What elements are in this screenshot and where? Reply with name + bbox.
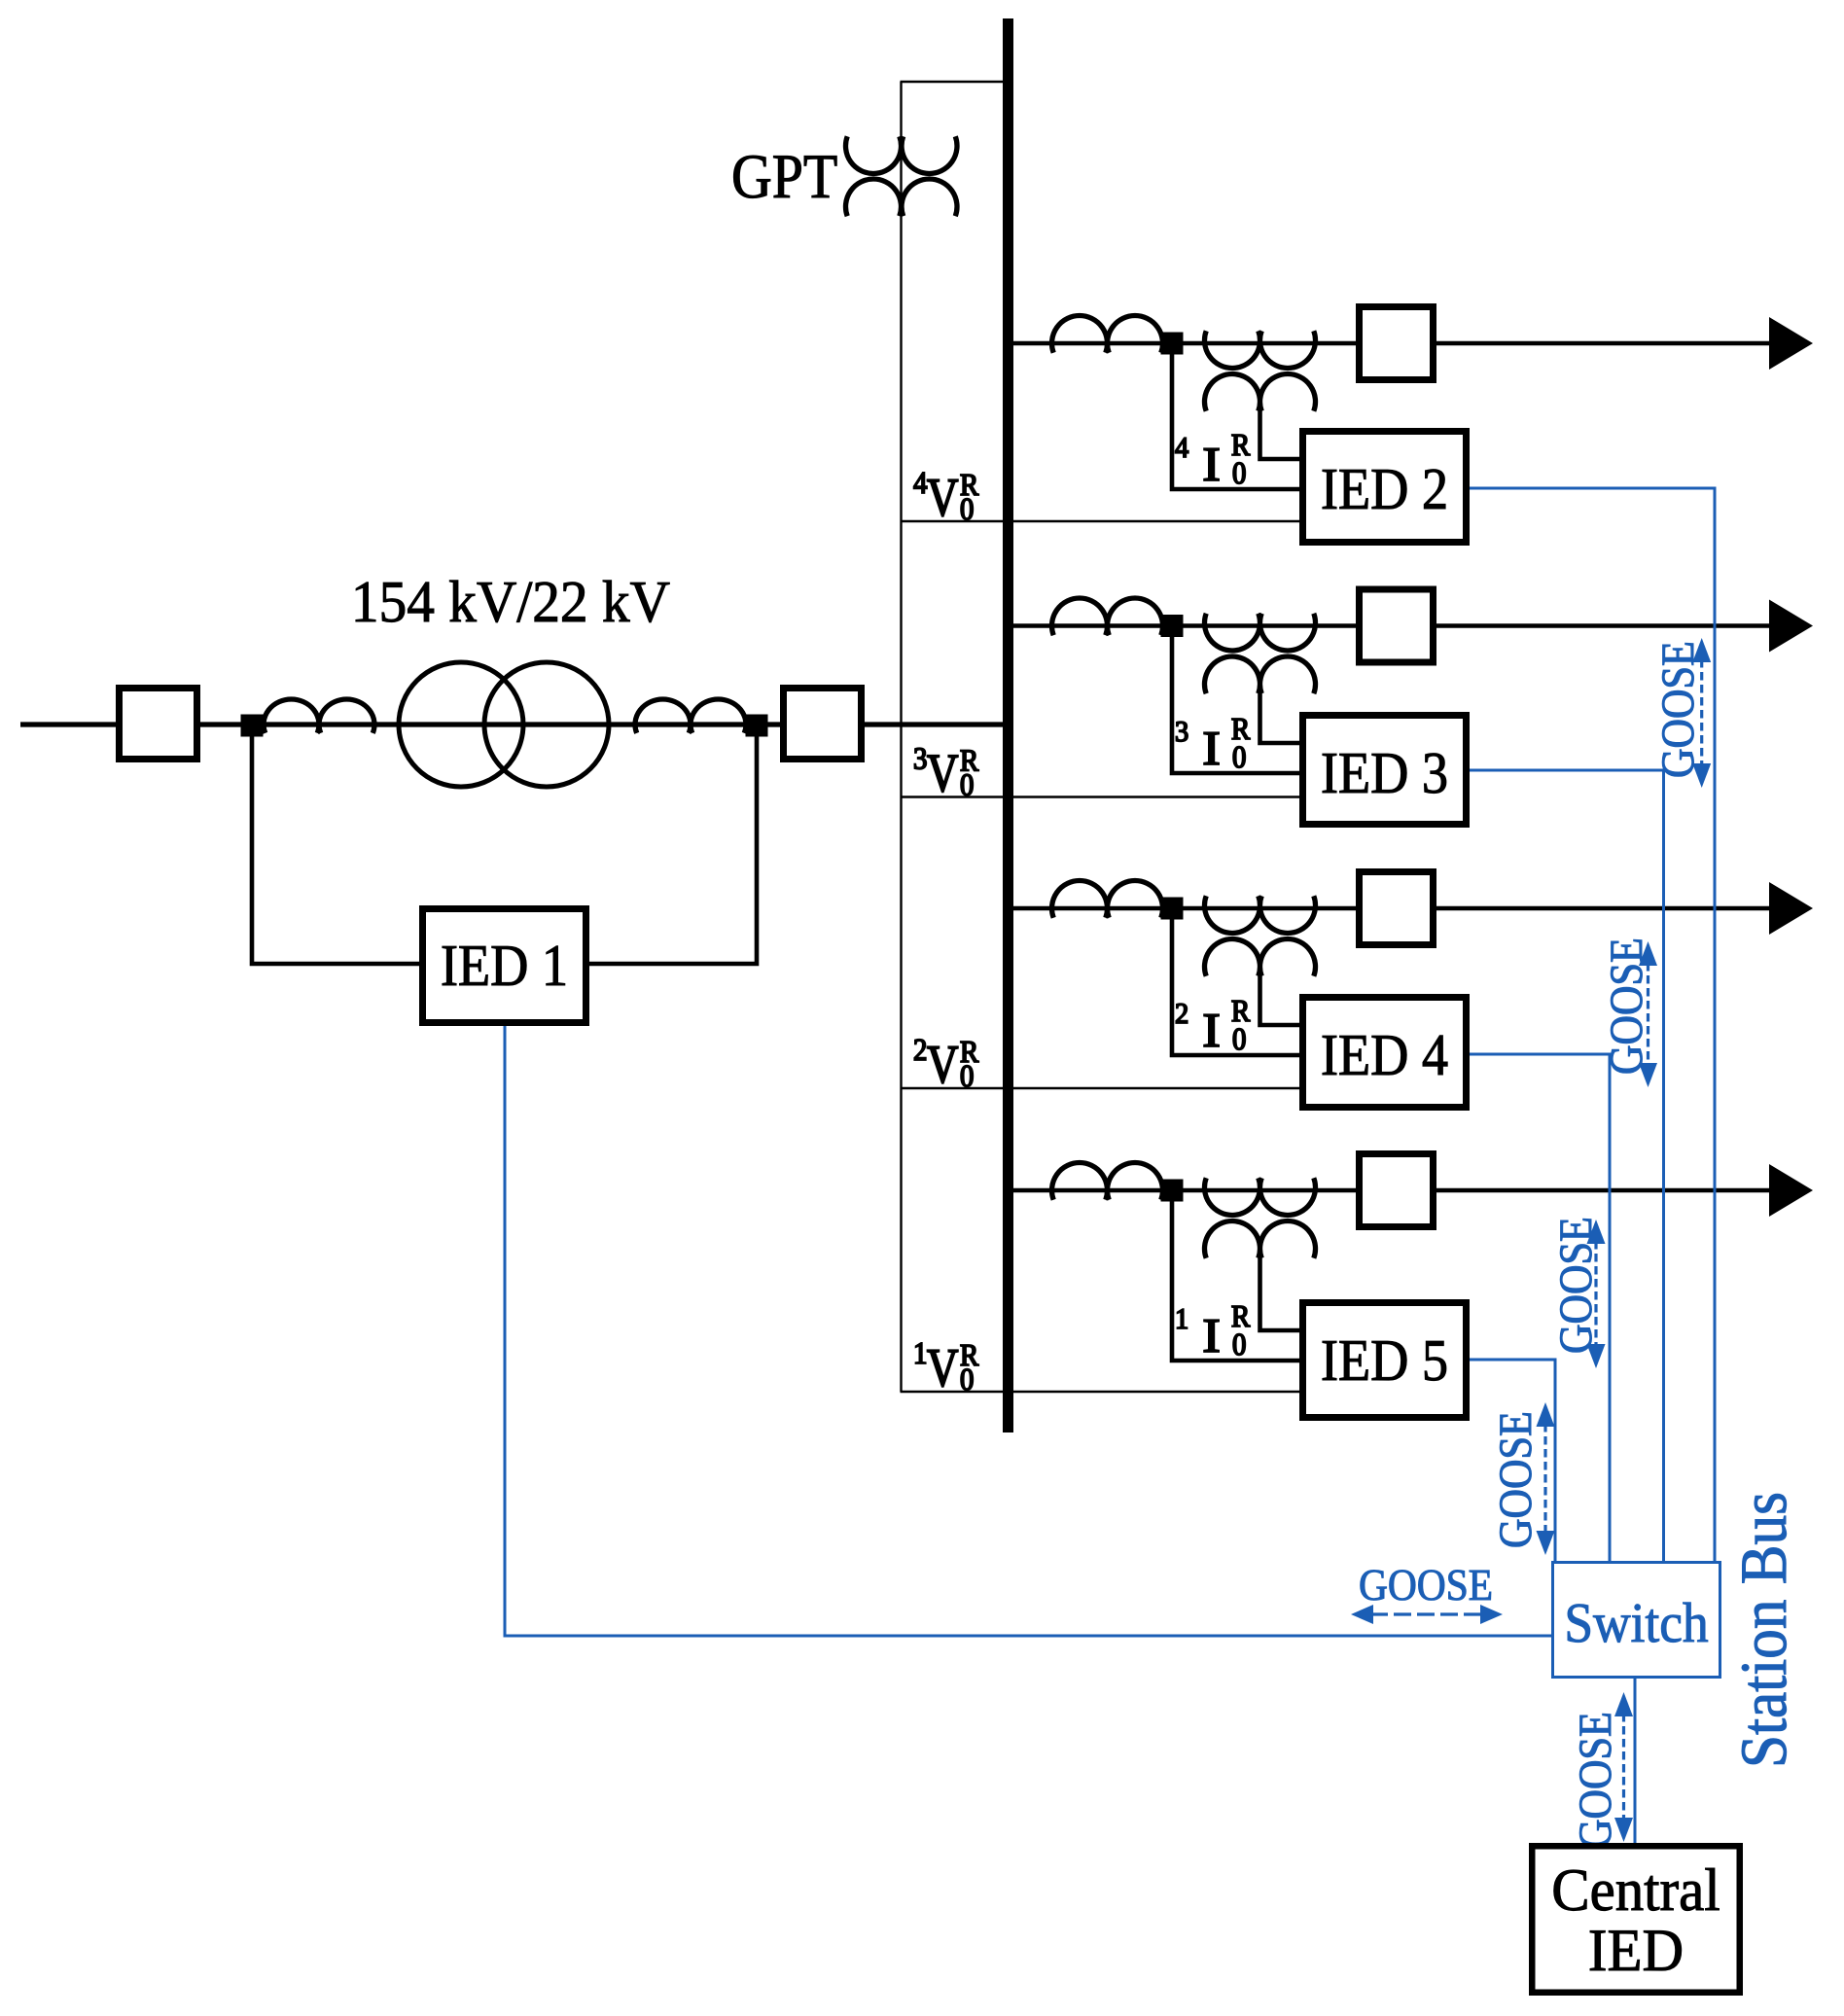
arrow: GOOSE IED1 (horizontal) [1351, 1605, 1373, 1624]
label: Central IED [1554, 1868, 1720, 1911]
feeder 3 CT winding [1052, 881, 1163, 918]
circuit breaker feeder 4 [1360, 1154, 1434, 1227]
wire: IED 5 to switch (ethernet) [1470, 1360, 1555, 1561]
feeder 1 CT winding [1052, 316, 1163, 353]
arrow: feeder 4 outgoing [1769, 1164, 1813, 1217]
label: IED 3 [1323, 754, 1446, 794]
label: IED 5 [1323, 1341, 1446, 1381]
wire: IED 1 to switch (ethernet) [505, 1026, 1551, 1636]
wire: switch to central IED (ethernet) [1634, 1679, 1637, 1843]
label: 3I0R [1176, 719, 1250, 767]
feeder 2 ZCT primary winding [1204, 614, 1315, 651]
circuit breaker feeder 2 [1360, 589, 1434, 662]
wire: node N2 to IED 1 [589, 725, 757, 964]
label: Station Bus [1742, 1494, 1787, 1764]
circuit breaker CB1 [120, 689, 197, 760]
wire: feeder 2 ZCT secondary to IED 3 [1260, 687, 1300, 744]
wire: 2V0R output [901, 1087, 1300, 1089]
node N1 [241, 715, 264, 737]
wire: feeder 1 line [1009, 341, 1773, 346]
arrow: feeder 3 outgoing [1769, 882, 1813, 935]
wire: IED 3 to switch (ethernet) [1470, 770, 1664, 1561]
label: 1V0R [916, 1343, 979, 1390]
label: 4V0R [914, 473, 979, 519]
switch box [1553, 1563, 1720, 1678]
wire: GPT column [900, 82, 902, 1392]
feeder 2 ZCT secondary winding [1204, 656, 1315, 693]
node feeder 2 tap [1161, 615, 1184, 637]
label: GOOSE IED1 [1361, 1571, 1491, 1601]
label: IED 4 [1323, 1036, 1447, 1075]
CT2 winding [635, 699, 746, 733]
label: 154 kV/22 kV [356, 581, 670, 622]
label: Switch [1568, 1603, 1708, 1643]
IED 4 box [1303, 998, 1467, 1108]
wire: feeder 3 line [1009, 906, 1773, 911]
IED 5 box [1303, 1303, 1467, 1418]
label: IED 2 [1323, 470, 1445, 509]
label: GOOSE IED4 [1560, 1219, 1591, 1352]
wire: IED 2 to switch (ethernet) [1470, 488, 1715, 1561]
transformer T1 (154 kV/22 kV) [399, 662, 523, 787]
node feeder 3 tap [1161, 898, 1184, 920]
wire: GPT column top link [901, 81, 1004, 83]
node feeder 1 tap [1161, 333, 1184, 355]
arrow: GOOSE IED5 [1537, 1402, 1555, 1427]
label: GOOSE IED5 [1500, 1413, 1531, 1546]
CT1 winding [264, 699, 374, 733]
wire: 3V0R output [901, 796, 1300, 797]
IED 2 box [1303, 432, 1467, 543]
IED U1 box [423, 909, 586, 1023]
arrow: GOOSE central IED [1614, 1692, 1633, 1716]
arrow: feeder 2 outgoing [1769, 600, 1813, 653]
label: GOOSE IED3 [1611, 939, 1642, 1073]
IED 3 box [1303, 716, 1467, 825]
wire: feeder 4 ZCT secondary to IED 5 [1260, 1251, 1300, 1330]
arrow: feeder 1 outgoing [1769, 317, 1813, 370]
GPT winding primary [846, 136, 958, 173]
circuit breaker feeder 1 [1360, 307, 1434, 380]
wire: feeder 3 ZCT secondary to IED 4 [1260, 969, 1300, 1025]
feeder 3 ZCT secondary winding [1205, 939, 1316, 976]
wire: feeder 3 CT tap to IED 4 [1172, 908, 1299, 1055]
feeder 3 ZCT primary winding [1205, 896, 1316, 933]
feeder 4 ZCT secondary winding [1205, 1221, 1316, 1258]
wire: IED 4 to switch (ethernet) [1470, 1054, 1610, 1561]
label: GOOSE IED2 [1662, 643, 1693, 776]
wire: node N1 to IED 1 [252, 725, 419, 964]
arrow: GOOSE IED2 [1692, 638, 1711, 662]
label: IED 1 [443, 946, 565, 985]
wire: 4V0R output [901, 520, 1300, 522]
wire: feeder 4 CT tap to IED 5 [1172, 1190, 1299, 1361]
label: 2V0R [914, 1040, 978, 1086]
wire: 1V0R output [901, 1391, 1300, 1393]
wire: incoming 154 kV line [20, 722, 1003, 726]
label: 1I0R [1178, 1306, 1251, 1355]
central IED box [1532, 1846, 1740, 1993]
label: 2I0R [1176, 1001, 1250, 1049]
feeder 4 ZCT primary winding [1205, 1178, 1316, 1215]
circuit breaker feeder 3 [1360, 872, 1434, 945]
feeder 4 CT winding [1052, 1163, 1163, 1200]
wire: feeder 4 line [1009, 1188, 1773, 1193]
feeder 1 ZCT primary winding [1204, 331, 1315, 368]
label: 3V0R [914, 748, 978, 796]
arrow: GOOSE IED4 [1587, 1220, 1606, 1244]
wire: feeder 1 ZCT secondary to IED 2 [1260, 404, 1300, 459]
arrow: GOOSE IED3 [1639, 941, 1657, 966]
GPT winding secondary [846, 179, 958, 216]
label: 4I0R [1176, 435, 1251, 483]
label: GOOSE central IED [1579, 1714, 1611, 1847]
feeder 2 CT winding [1052, 598, 1163, 635]
bus bar 22 kV [1003, 18, 1013, 1432]
label: GPT [733, 156, 836, 198]
wire: feeder 2 line [1009, 623, 1773, 628]
node feeder 4 tap [1161, 1180, 1184, 1202]
node N2 [746, 715, 768, 737]
wire: feeder 1 CT tap to IED 2 [1172, 343, 1299, 489]
circuit breaker CB2 [784, 689, 862, 760]
wire: feeder 2 CT tap to IED 3 [1172, 626, 1299, 774]
feeder 1 ZCT secondary winding [1204, 374, 1315, 411]
